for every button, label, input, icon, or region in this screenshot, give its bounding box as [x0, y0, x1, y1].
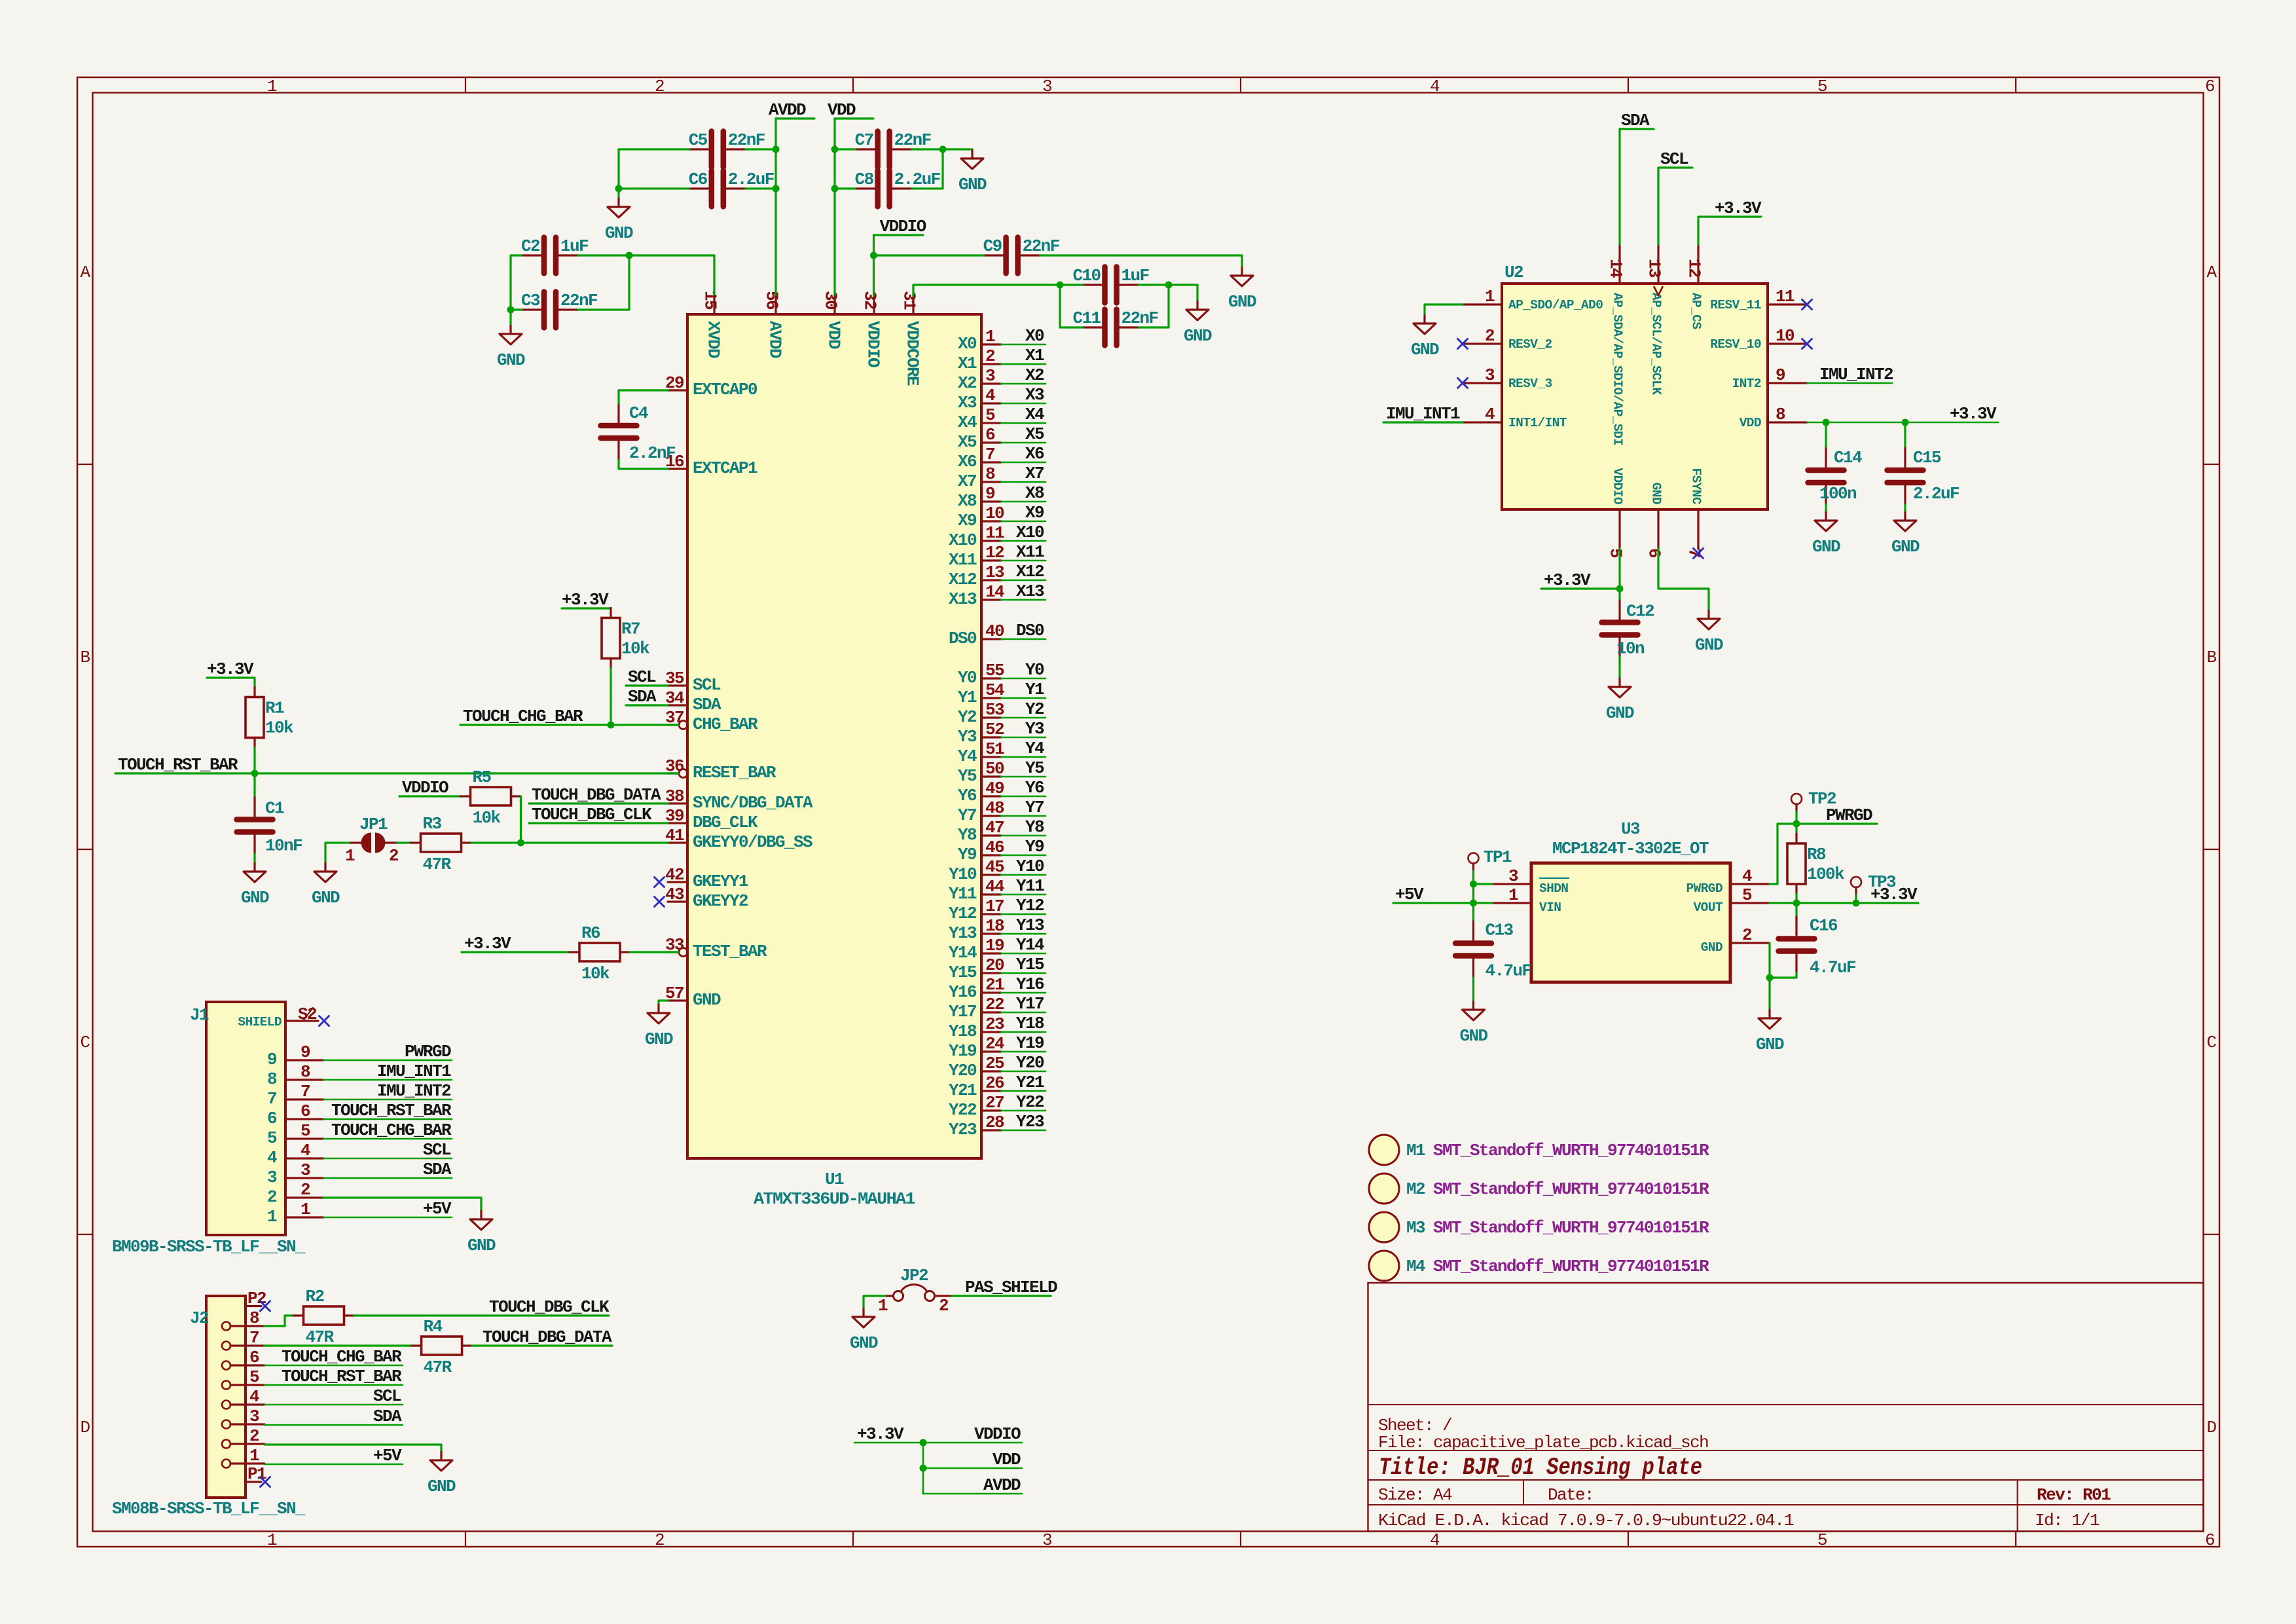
wire and local label SCL (J2 pin 4): [264, 1404, 403, 1406]
test point TP1: [1468, 853, 1479, 864]
svg-text:D: D: [2206, 1418, 2216, 1437]
svg-text:X6: X6: [1025, 444, 1044, 464]
U1 pin 52 Y3 (right): [981, 736, 1001, 738]
wire C10/C11 right tie + GND: [1139, 285, 1169, 327]
svg-text:X10: X10: [1016, 523, 1044, 542]
svg-text:X2: X2: [958, 373, 977, 393]
wire down to VDD row: [922, 1443, 924, 1468]
U1 pin 10 X9 (right): [981, 520, 1001, 522]
ground below C15: [1894, 511, 1916, 531]
U1 pin 47 Y8 (right): [981, 834, 1001, 836]
wire TOUCH_RST_BAR to RESET_BAR pin36: [115, 772, 678, 774]
svg-text:Y5: Y5: [1025, 758, 1044, 778]
wire and local label X8: [1001, 501, 1046, 503]
svg-text:1: 1: [1485, 287, 1495, 306]
svg-text:SYNC/DBG_DATA: SYNC/DBG_DATA: [693, 793, 813, 813]
J2 pin 5: [222, 1381, 230, 1390]
column divider tick: [1240, 77, 1241, 93]
wire VDD to C7/C8 left: [835, 148, 856, 150]
wire and local label X7: [1001, 481, 1046, 483]
wire +3.3V feed: [854, 1442, 923, 1444]
svg-text:SDA: SDA: [423, 1160, 452, 1179]
U1 pin 13 X12 (right): [981, 579, 1001, 581]
svg-text:Y17: Y17: [949, 1002, 976, 1022]
svg-text:Y12: Y12: [949, 904, 977, 923]
wire and local label Y7: [1001, 815, 1046, 817]
no-connect U2 pin3: [1458, 378, 1468, 388]
U1 pin 17 Y12 (right): [981, 913, 1001, 915]
svg-text:X11: X11: [949, 550, 977, 570]
svg-text:3: 3: [249, 1407, 259, 1426]
svg-text:Y7: Y7: [1025, 798, 1044, 817]
svg-text:X3: X3: [1025, 385, 1044, 405]
resistor R8 100k: [1787, 843, 1806, 884]
U1 pin 34 SDA (left): [668, 704, 687, 706]
capacitor C2: [544, 238, 556, 274]
wire J2 pin2 to GND: [264, 1445, 441, 1451]
wire +3.3V to R7: [562, 607, 611, 610]
svg-text:4: 4: [267, 1148, 277, 1168]
svg-text:Y2: Y2: [958, 707, 977, 727]
svg-text:Y5: Y5: [958, 766, 977, 786]
U1 pin 50 Y5 (right): [981, 775, 1001, 777]
svg-text:SCL: SCL: [1660, 149, 1688, 169]
JP2 pin stubs: [885, 1295, 894, 1297]
svg-text:3: 3: [1042, 77, 1051, 96]
U1 pin 39 DBG_CLK (left): [668, 822, 687, 824]
svg-text:7: 7: [249, 1328, 259, 1348]
svg-text:VDDIO: VDDIO: [880, 217, 926, 236]
svg-text:8: 8: [985, 464, 995, 484]
no-connect U1 pin43 GKEYY2: [655, 897, 665, 907]
svg-text:1: 1: [267, 1530, 277, 1550]
svg-text:5: 5: [249, 1367, 259, 1387]
svg-text:M4: M4: [1406, 1257, 1425, 1276]
svg-text:56: 56: [762, 291, 782, 310]
no-connect on J2 P1: [261, 1477, 270, 1487]
svg-text:11: 11: [985, 523, 1004, 543]
svg-text:XVDD: XVDD: [704, 321, 723, 358]
wire J2 pin8 to R2: [264, 1316, 294, 1326]
wire and local label X11: [1001, 560, 1046, 562]
U1 pin 23 Y18 (right): [981, 1031, 1001, 1033]
svg-text:47R: 47R: [306, 1327, 335, 1347]
svg-text:3: 3: [1485, 365, 1495, 385]
column divider tick: [852, 77, 854, 93]
resistor R4 47R: [422, 1337, 462, 1355]
wire and local label Y3: [1001, 737, 1046, 739]
svg-text:C4: C4: [629, 403, 648, 423]
svg-text:SDA: SDA: [373, 1407, 402, 1426]
J2 pin 2: [222, 1440, 230, 1449]
svg-text:X4: X4: [1025, 405, 1044, 424]
wire and local label SDA (J1 pin 3): [323, 1177, 452, 1179]
svg-text:53: 53: [985, 700, 1004, 720]
svg-text:DBG_CLK: DBG_CLK: [693, 813, 758, 832]
svg-text:Y21: Y21: [1016, 1073, 1044, 1092]
svg-text:17: 17: [985, 896, 1004, 916]
svg-text:10: 10: [985, 504, 1004, 523]
svg-text:AVDD: AVDD: [983, 1475, 1021, 1495]
svg-text:X0: X0: [958, 334, 977, 354]
svg-text:VDDIO: VDDIO: [1611, 468, 1625, 505]
svg-text:100n: 100n: [1819, 484, 1857, 504]
svg-text:1: 1: [985, 327, 995, 346]
wire C14 to GND: [1825, 505, 1827, 512]
wire and local label Y11: [1001, 894, 1046, 896]
svg-text:14: 14: [985, 582, 1004, 602]
svg-text:9: 9: [301, 1043, 310, 1062]
svg-text:C1: C1: [265, 799, 284, 819]
svg-text:Y8: Y8: [1025, 817, 1044, 837]
ground below C13: [1463, 1001, 1485, 1020]
wire and local label X5: [1001, 442, 1046, 444]
junction GND tie: [1766, 974, 1774, 982]
wire down to C14: [1825, 422, 1827, 449]
svg-text:GKEYY1: GKEYY1: [693, 872, 748, 891]
wire U2 pin1 to GND: [1425, 304, 1463, 314]
svg-text:C5: C5: [689, 130, 708, 150]
svg-text:GND: GND: [1701, 940, 1722, 955]
svg-text:C6: C6: [689, 170, 708, 189]
svg-text:SCL: SCL: [628, 667, 656, 687]
U1 pin 15 XVDD (top): [713, 295, 715, 314]
wire C5/C6 right to AVDD: [746, 148, 776, 150]
wire C10/C11 left tie: [1060, 285, 1083, 327]
wire and local label Y0: [1001, 678, 1046, 680]
svg-text:30: 30: [821, 291, 841, 310]
svg-text:7: 7: [985, 445, 994, 464]
svg-text:2.2uF: 2.2uF: [1913, 484, 1959, 504]
svg-text:GND: GND: [1695, 635, 1723, 655]
svg-text:TOUCH_CHG_BAR: TOUCH_CHG_BAR: [282, 1347, 402, 1367]
svg-text:PWRGD: PWRGD: [1826, 805, 1872, 825]
svg-text:25: 25: [985, 1054, 1004, 1073]
wire C15 to GND: [1904, 505, 1906, 512]
J1 pin 7: [285, 1098, 323, 1100]
svg-text:SDA: SDA: [693, 695, 721, 714]
junction tie VDDIO: [920, 1439, 927, 1447]
svg-text:TOUCH_CHG_BAR: TOUCH_CHG_BAR: [463, 707, 583, 726]
svg-text:9: 9: [985, 484, 995, 504]
svg-text:Y18: Y18: [949, 1022, 977, 1041]
svg-text:IMU_INT1: IMU_INT1: [1386, 404, 1460, 424]
U1 pin 43 GKEYY2 (left): [668, 900, 687, 902]
svg-text:R3: R3: [423, 814, 442, 834]
wire and local label X10: [1001, 540, 1046, 542]
svg-text:43: 43: [665, 885, 684, 904]
U1 pin 37 CHG_BAR (left): [668, 724, 678, 726]
svg-text:AP_SDO/AP_AD0: AP_SDO/AP_AD0: [1508, 298, 1603, 312]
wire INT2 to IMU_INT2 label: [1807, 382, 1892, 384]
svg-text:22nF: 22nF: [894, 130, 932, 150]
svg-text:1: 1: [878, 1296, 888, 1316]
wire and local label Y20: [1001, 1071, 1046, 1073]
junction VIN/C13: [1470, 900, 1477, 907]
svg-text:C13: C13: [1485, 921, 1514, 940]
wire JP1 pin1 to GND: [325, 843, 349, 862]
svg-text:ATMXT336UD-MAUHA1: ATMXT336UD-MAUHA1: [754, 1189, 915, 1209]
svg-text:R8: R8: [1807, 845, 1826, 864]
svg-text:X1: X1: [958, 354, 977, 373]
svg-text:AP_CS: AP_CS: [1689, 293, 1704, 329]
junction VDDIO/C12: [1616, 585, 1624, 593]
jumper JP1: [361, 833, 371, 853]
local label SCL (U2) and wire to pin13: [1658, 168, 1692, 244]
U1 pin 11 X10 (right): [981, 540, 1001, 542]
svg-text:Y10: Y10: [949, 864, 977, 884]
svg-text:C16: C16: [1810, 916, 1838, 936]
svg-text:C9: C9: [983, 236, 1002, 256]
U1 pin 4 X3 (right): [981, 402, 1001, 404]
J1 pin S2 SHIELD: [285, 1020, 318, 1022]
svg-text:AVDD: AVDD: [769, 100, 806, 120]
svg-text:24: 24: [985, 1034, 1004, 1054]
U1 pin 27 Y22 (right): [981, 1109, 1001, 1111]
wire R2 to TOUCH_DBG_CLK label: [354, 1314, 610, 1316]
svg-text:12: 12: [1685, 259, 1704, 278]
wire C2 right to XVDD pin15: [578, 255, 714, 295]
local label AVDD and wire to pin 56: [776, 117, 814, 119]
wire junction to C12: [1618, 589, 1620, 600]
svg-text:4: 4: [1430, 77, 1440, 96]
junction tie VDD: [920, 1465, 927, 1472]
wire to VDD label: [923, 1467, 1022, 1469]
local label +3.3V (U2 pin12) and wire: [1698, 217, 1761, 244]
U1 pin 31 VDDCORE (top): [912, 295, 914, 314]
wire VDDIO to C9: [874, 254, 984, 256]
resistor R6 10k: [579, 943, 620, 961]
wire J2 pin7 to R4: [264, 1344, 412, 1346]
svg-text:X3: X3: [958, 393, 977, 413]
svg-text:2: 2: [985, 346, 995, 366]
wire SCL to pin35: [626, 684, 668, 686]
svg-text:IMU_INT1: IMU_INT1: [377, 1061, 451, 1081]
svg-text:+5V: +5V: [373, 1446, 402, 1466]
no-connect U2 pin2: [1458, 339, 1468, 349]
svg-text:2.2uF: 2.2uF: [894, 170, 941, 189]
ground at U2 pin1: [1413, 314, 1436, 334]
svg-text:13: 13: [985, 563, 1004, 582]
svg-text:VDD: VDD: [993, 1450, 1021, 1469]
svg-text:TOUCH_DBG_CLK: TOUCH_DBG_CLK: [489, 1297, 610, 1317]
U1 pin 22 Y17 (right): [981, 1011, 1001, 1013]
ground at J1 pin2: [470, 1210, 492, 1230]
svg-text:3: 3: [985, 366, 995, 386]
wire and local label DS0: [1001, 638, 1046, 640]
wire JP2 pin1 to GND: [864, 1296, 885, 1308]
svg-text:SDA: SDA: [628, 687, 657, 707]
svg-text:6: 6: [267, 1109, 277, 1128]
svg-text:SMT_Standoff_WURTH_9774010151R: SMT_Standoff_WURTH_9774010151R: [1433, 1257, 1709, 1276]
local label VDDIO and wire to pin 32: [874, 234, 924, 236]
svg-text:X5: X5: [958, 432, 977, 452]
svg-text:4: 4: [1430, 1530, 1440, 1550]
svg-text:4: 4: [1485, 405, 1495, 424]
wire down to AVDD row: [922, 1468, 924, 1494]
svg-text:SMT_Standoff_WURTH_9774010151R: SMT_Standoff_WURTH_9774010151R: [1433, 1141, 1709, 1160]
svg-text:SCL: SCL: [373, 1386, 401, 1406]
connector J2 body: [206, 1296, 246, 1498]
svg-text:20: 20: [985, 955, 1004, 975]
U1 pin 35 SCL (left): [668, 684, 687, 686]
svg-text:GND: GND: [1606, 703, 1634, 723]
mounting hole M2: [1369, 1173, 1399, 1204]
svg-text:Y16: Y16: [949, 982, 977, 1002]
mounting hole M1: [1369, 1135, 1399, 1165]
J1 pin 4: [285, 1157, 323, 1159]
svg-text:KiCad E.D.A. kicad 7.0.9-7.0.: KiCad E.D.A. kicad 7.0.9-7.0.9~ubuntu22.…: [1378, 1511, 1794, 1530]
wire SHDN junction to pin3: [1474, 883, 1493, 885]
svg-text:EXTCAP0: EXTCAP0: [693, 380, 757, 399]
U3 body MCP1824T: [1531, 863, 1730, 982]
junction VDD-C7: [831, 146, 839, 153]
svg-text:M1: M1: [1406, 1141, 1425, 1160]
J1 pin 5: [285, 1137, 323, 1139]
svg-text:Y13: Y13: [949, 923, 977, 943]
wire VDDIO to R5: [399, 795, 461, 797]
svg-text:Y6: Y6: [1025, 778, 1044, 798]
svg-text:Y14: Y14: [1016, 935, 1044, 955]
svg-text:1: 1: [345, 846, 355, 866]
wire SHDN to VIN tie: [1472, 884, 1474, 903]
U1 pin 38 SYNC/DBG_DATA (left): [668, 802, 687, 804]
wire SDA to pin34: [626, 704, 668, 706]
svg-text:Y0: Y0: [958, 668, 977, 688]
svg-text:32: 32: [860, 291, 880, 310]
wire and local label X1: [1001, 363, 1046, 365]
svg-text:1: 1: [301, 1200, 310, 1219]
svg-text:X11: X11: [1016, 542, 1044, 562]
svg-text:4.7uF: 4.7uF: [1810, 958, 1856, 978]
U1 pin 6 X5 (right): [981, 441, 1001, 443]
U1 pin 53 Y2 (right): [981, 716, 1001, 718]
svg-text:4: 4: [301, 1141, 310, 1160]
svg-text:AVDD: AVDD: [765, 321, 785, 358]
wire TP2 down to PWRGD net: [1795, 804, 1797, 812]
svg-text:X8: X8: [958, 491, 977, 511]
wire to VDDIO label: [923, 1442, 1022, 1444]
wire C5/C6 left + GND drop: [619, 149, 689, 189]
svg-text:Y15: Y15: [1016, 955, 1044, 974]
wire JP2 pin2 to PAS_SHIELD label: [952, 1295, 1051, 1297]
wire and local label +5V (J2 pin 1): [264, 1464, 403, 1466]
svg-text:TOUCH_CHG_BAR: TOUCH_CHG_BAR: [331, 1120, 452, 1140]
svg-text:4: 4: [1742, 866, 1752, 886]
U2 pin 3 RESV_3 (left): [1463, 382, 1502, 384]
wire U3 pin2 GND down: [1768, 943, 1770, 978]
svg-text:VOUT: VOUT: [1694, 900, 1723, 915]
svg-text:+3.3V: +3.3V: [1950, 404, 1997, 424]
svg-text:Date:: Date:: [1548, 1485, 1594, 1505]
svg-text:A: A: [80, 263, 90, 282]
local label SDA (U2) and wire to pin14: [1620, 129, 1654, 244]
J2 pin 8: [222, 1322, 230, 1331]
svg-text:Y16: Y16: [1016, 974, 1044, 994]
svg-text:GND: GND: [1411, 340, 1439, 360]
wire and local label IMU_INT1 (J1 pin 8): [323, 1079, 452, 1081]
U2 pin 14 AP_SDA/AP_SDIO/AP_SDI (top): [1618, 244, 1620, 284]
svg-text:1: 1: [1508, 885, 1518, 905]
svg-text:CHG_BAR: CHG_BAR: [693, 714, 758, 734]
junction TP3/VOUT: [1853, 900, 1860, 907]
svg-text:9: 9: [267, 1050, 277, 1069]
U1 pin 9 X8 (right): [981, 500, 1001, 502]
svg-text:1: 1: [267, 77, 277, 96]
U1 pin 55 Y0 (right): [981, 677, 1001, 679]
U1 pin 3 X2 (right): [981, 382, 1001, 384]
svg-text:RESV_2: RESV_2: [1508, 337, 1552, 352]
wire and local label Y23: [1001, 1130, 1046, 1132]
svg-text:+3.3V: +3.3V: [464, 934, 511, 953]
J1 pin 6: [285, 1118, 323, 1120]
svg-text:2: 2: [655, 1530, 664, 1550]
wire and local label IMU_INT2 (J1 pin 7): [323, 1099, 452, 1101]
svg-text:5: 5: [985, 405, 995, 425]
svg-text:C3: C3: [521, 291, 540, 310]
svg-text:51: 51: [985, 739, 1004, 759]
svg-text:GND: GND: [1756, 1035, 1784, 1054]
svg-text:U3: U3: [1621, 819, 1640, 839]
wire and local label X4: [1001, 422, 1046, 424]
wire and local label TOUCH_CHG_BAR (J1 pin 5): [323, 1138, 452, 1140]
wire and local label Y15: [1001, 972, 1046, 974]
resistor R3 47R: [421, 834, 462, 852]
U1 pin 29 EXTCAP0 (left): [668, 389, 687, 391]
svg-text:22nF: 22nF: [560, 291, 598, 310]
wire TOUCH_DBG_DATA to pin38: [529, 802, 668, 804]
svg-text:FSYNC: FSYNC: [1689, 468, 1704, 505]
svg-text:GND: GND: [605, 223, 633, 243]
U1 pin 42 GKEYY1 (left): [668, 881, 687, 883]
svg-text:6: 6: [985, 425, 995, 445]
svg-text:X5: X5: [1025, 424, 1044, 444]
J2 pin 6: [222, 1361, 230, 1370]
svg-text:X4: X4: [958, 413, 977, 432]
svg-text:C12: C12: [1626, 602, 1654, 621]
ground at J2 pin2: [430, 1451, 452, 1471]
svg-text:U1: U1: [825, 1170, 844, 1189]
junction XVDD: [626, 252, 633, 259]
svg-text:40: 40: [985, 621, 1004, 641]
svg-text:R1: R1: [265, 699, 284, 718]
J2 pin 1: [222, 1460, 230, 1468]
svg-text:SM08B-SRSS-TB_LF__SN_: SM08B-SRSS-TB_LF__SN_: [112, 1499, 306, 1519]
svg-text:28: 28: [985, 1113, 1004, 1132]
wire and local label Y5: [1001, 776, 1046, 778]
junction R8/VOUT: [1793, 900, 1800, 907]
svg-text:GKEYY0/DBG_SS: GKEYY0/DBG_SS: [693, 832, 812, 852]
svg-text:45: 45: [985, 857, 1004, 877]
svg-text:6: 6: [1645, 548, 1664, 558]
svg-text:2: 2: [1742, 925, 1752, 945]
wire and local label Y9: [1001, 855, 1046, 857]
svg-text:Y20: Y20: [949, 1061, 977, 1080]
wire and local label Y13: [1001, 933, 1046, 935]
U1 pin 5 X4 (right): [981, 422, 1001, 424]
svg-text:100k: 100k: [1807, 864, 1844, 884]
J1 pin 2: [285, 1196, 323, 1198]
column divider tick: [2015, 77, 2016, 93]
svg-text:X10: X10: [949, 530, 977, 550]
svg-text:Y8: Y8: [958, 825, 977, 845]
wire +3.3V to C12 junction: [1541, 587, 1620, 589]
svg-text:C: C: [2206, 1033, 2216, 1052]
svg-text:DS0: DS0: [1016, 621, 1044, 640]
wire and local label Y14: [1001, 953, 1046, 955]
U2 pin 9 INT2 (right): [1768, 382, 1807, 384]
wire C3 right up to XVDD net: [578, 255, 629, 310]
